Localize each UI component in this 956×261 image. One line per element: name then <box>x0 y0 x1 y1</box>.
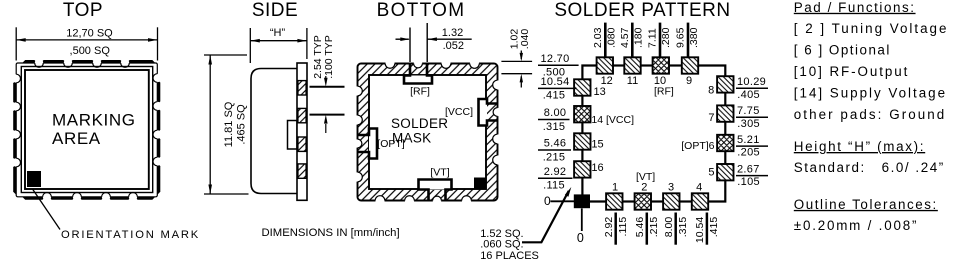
svg-text:.315: .315 <box>543 121 566 133</box>
svg-text:.100 TYP: .100 TYP <box>323 35 335 79</box>
pad 2 [VT] <box>635 193 651 209</box>
pad 4 <box>692 193 708 209</box>
svg-text:15: 15 <box>591 138 603 150</box>
dimension 5.46 leader left <box>538 149 571 151</box>
svg-text:.465 SQ: .465 SQ <box>236 104 248 145</box>
pad 12 <box>597 57 613 73</box>
svg-text:.180: .180 <box>632 27 644 48</box>
dimension 2.92 line bottom <box>614 213 617 245</box>
pad 14 [VCC] <box>574 106 590 122</box>
wire left column <box>581 96 583 106</box>
svg-text:12.70: 12.70 <box>540 53 569 65</box>
svg-text:other pads: Ground: other pads: Ground <box>794 107 946 122</box>
pad [VT] cutout <box>419 180 452 190</box>
dimension 12.70 SQ line <box>16 39 157 41</box>
svg-text:SOLDER: SOLDER <box>391 116 448 131</box>
svg-text:12,70 SQ: 12,70 SQ <box>66 27 113 39</box>
svg-text:4.57: 4.57 <box>619 27 631 48</box>
svg-text:5.46: 5.46 <box>544 138 567 150</box>
dimension 1.02 extension lines <box>501 60 532 62</box>
orientation mark <box>27 171 41 187</box>
svg-text:[VT]: [VT] <box>636 171 655 183</box>
svg-text:TOP: TOP <box>63 0 103 21</box>
dimension 4.57 line <box>631 23 634 58</box>
pad 13 <box>574 79 590 95</box>
svg-text:.115: .115 <box>543 180 565 192</box>
svg-text:[14] Supply Voltage: [14] Supply Voltage <box>794 85 947 100</box>
note leader <box>522 191 569 242</box>
pad 11 <box>624 57 640 73</box>
svg-text:3: 3 <box>668 182 674 194</box>
pad 7 <box>717 105 733 121</box>
svg-text:.380: .380 <box>688 27 700 48</box>
svg-text:.415: .415 <box>543 90 566 102</box>
svg-text:.205: .205 <box>737 147 760 159</box>
pad 1 <box>606 193 622 209</box>
dimension 10.54 leader left <box>538 87 577 89</box>
svg-text:Standard: 6.0/ .24”: Standard: 6.0/ .24” <box>794 160 945 175</box>
svg-text:5.21: 5.21 <box>737 134 760 146</box>
svg-text:0: 0 <box>544 194 551 208</box>
pad [OPT] cutout <box>369 129 377 159</box>
svg-text:[10] RF-Output: [10] RF-Output <box>794 64 909 79</box>
wire right column <box>724 151 726 164</box>
side view pad strip <box>297 63 307 200</box>
svg-text:2.03: 2.03 <box>592 27 604 48</box>
svg-text:2.67: 2.67 <box>737 163 760 175</box>
dimension 2.54 upper line <box>310 86 345 88</box>
orientation mark leader <box>33 189 61 230</box>
svg-text:[RF]: [RF] <box>654 86 674 98</box>
pad 5 <box>717 164 733 180</box>
svg-text:Pad / Functions:: Pad / Functions: <box>794 0 916 15</box>
svg-text:“H”: “H” <box>270 27 286 39</box>
svg-text:Height “H” (max):: Height “H” (max): <box>794 139 925 154</box>
svg-text:11: 11 <box>627 75 638 87</box>
bottom view orientation mark <box>474 178 487 189</box>
wire top-left corner <box>582 66 596 80</box>
svg-text:10.54: 10.54 <box>540 76 569 88</box>
dimension 9.65 line <box>687 23 690 58</box>
dimension 7.75 leader right <box>736 116 768 118</box>
svg-text:SIDE: SIDE <box>252 0 298 21</box>
dimension 2.67 leader right <box>736 175 768 177</box>
side view pads <box>298 81 306 95</box>
dimension 5.21 leader right <box>736 145 768 147</box>
svg-text:.315: .315 <box>677 217 689 238</box>
svg-text:[OPT]6: [OPT]6 <box>681 140 714 152</box>
svg-text:.405: .405 <box>737 89 760 101</box>
svg-text:AREA: AREA <box>52 129 101 148</box>
dimension 12.70 SQ extension lines <box>15 27 17 60</box>
svg-text:MASK: MASK <box>392 130 431 145</box>
svg-text:10.54: 10.54 <box>694 217 706 243</box>
pad [RF] cutout <box>404 76 432 84</box>
svg-text:1: 1 <box>612 182 618 194</box>
dimension 12.70 leader left <box>538 64 579 66</box>
svg-text:5: 5 <box>708 166 714 178</box>
svg-text:4: 4 <box>696 182 702 194</box>
side view middle protrusion <box>288 121 298 150</box>
svg-text:16: 16 <box>591 162 603 174</box>
wire top-right corner <box>698 66 725 77</box>
origin pad (black square) <box>574 194 590 208</box>
dimension 2.92 leader left <box>538 177 573 179</box>
pad 10 [RF] <box>653 57 669 73</box>
svg-text:Outline Tolerances:: Outline Tolerances: <box>794 197 938 212</box>
svg-text:.215: .215 <box>543 151 566 163</box>
svg-text:ORIENTATION MARK: ORIENTATION MARK <box>61 229 200 241</box>
svg-text:.215: .215 <box>648 217 660 238</box>
pad [VCC] cutout <box>479 99 488 126</box>
svg-text:.105: .105 <box>737 176 760 188</box>
wire origin down <box>581 208 583 231</box>
pad 9 <box>682 57 698 73</box>
svg-text:DIMENSIONS IN [mm/inch]: DIMENSIONS IN [mm/inch] <box>262 227 400 239</box>
svg-text:MARKING: MARKING <box>52 111 136 130</box>
svg-text:.080: .080 <box>605 27 617 48</box>
svg-text:,500 SQ: ,500 SQ <box>70 45 111 57</box>
svg-text:0: 0 <box>577 231 584 245</box>
svg-text:2.92: 2.92 <box>603 217 615 238</box>
svg-text:[VT]: [VT] <box>430 167 449 179</box>
pad 8 <box>717 76 733 92</box>
wire origin left <box>550 200 574 202</box>
svg-text:7: 7 <box>708 112 714 124</box>
svg-text:.115: .115 <box>617 217 629 237</box>
dimension 1.32 extension lines <box>409 28 411 63</box>
svg-text:9.65: 9.65 <box>675 27 687 48</box>
dimension 10.29 leader right <box>736 87 768 89</box>
dimension H line <box>250 40 307 42</box>
svg-text:.415: .415 <box>708 217 720 238</box>
side view body <box>251 69 297 194</box>
dimension 1.02 arrows <box>520 51 522 60</box>
svg-text:[ 2 ] Tuning Voltage: [ 2 ] Tuning Voltage <box>794 21 949 36</box>
dimension 2.03 line <box>604 23 607 58</box>
svg-text:8.00: 8.00 <box>663 217 675 238</box>
svg-text:11.81 SQ: 11.81 SQ <box>223 101 235 147</box>
svg-text:.280: .280 <box>660 27 672 48</box>
svg-text:8.00: 8.00 <box>544 107 567 119</box>
dimension 8.00 leader left <box>538 119 570 121</box>
svg-text:1.32: 1.32 <box>442 27 463 39</box>
top view body square <box>21 67 152 193</box>
bottom view inner opening <box>369 75 486 189</box>
pad 15 <box>574 133 590 149</box>
pad 6 [OPT] <box>717 135 733 151</box>
dimension 7.11 line <box>659 23 662 58</box>
pad 16 <box>574 161 590 177</box>
svg-text:13: 13 <box>594 86 606 98</box>
dimension 1.32 arrows <box>396 38 409 40</box>
svg-text:[VCC]: [VCC] <box>445 106 473 118</box>
bottom view ground castellations <box>385 59 394 68</box>
wire top row <box>669 64 682 66</box>
svg-text:SOLDER PATTERN: SOLDER PATTERN <box>554 0 730 21</box>
svg-text:.040: .040 <box>519 29 531 50</box>
dimension 8.00 line bottom <box>674 213 677 245</box>
svg-text:16 PLACES: 16 PLACES <box>480 250 539 261</box>
svg-text:8: 8 <box>708 85 714 97</box>
svg-text:2.92: 2.92 <box>544 166 567 178</box>
dimension 5.46 line bottom <box>646 213 649 245</box>
bottom view hatched ring <box>358 64 498 201</box>
wire bottom-right corner <box>708 181 725 202</box>
svg-text:[ 6 ] Optional: [ 6 ] Optional <box>794 43 891 58</box>
top view lid square <box>25 70 149 189</box>
svg-text:[RF]: [RF] <box>410 86 430 98</box>
pad 3 <box>663 193 679 209</box>
svg-text:2: 2 <box>641 182 647 194</box>
svg-text:10.29: 10.29 <box>737 76 766 88</box>
svg-text:BOTTOM: BOTTOM <box>377 0 466 21</box>
svg-text:.305: .305 <box>737 118 760 130</box>
wire bottom row <box>590 200 606 202</box>
svg-text:14 [VCC]: 14 [VCC] <box>591 114 634 126</box>
svg-text:.060 SQ.: .060 SQ. <box>480 239 523 251</box>
dimension 11.81 SQ line <box>209 55 211 194</box>
dimension H extension lines <box>249 28 251 63</box>
dimension 2.54 lower line <box>310 114 345 116</box>
dimension 11.81 SQ extension lines <box>204 54 247 56</box>
svg-text:5.46: 5.46 <box>634 217 646 238</box>
svg-text:7.11: 7.11 <box>647 28 659 48</box>
svg-text:.052: .052 <box>443 40 464 52</box>
svg-text:±0.20mm / .008”: ±0.20mm / .008” <box>794 218 918 233</box>
dimension 10.54 line bottom <box>706 213 709 245</box>
top view castellated outline <box>16 63 157 197</box>
top view castellation notches <box>35 59 43 67</box>
svg-text:7.75: 7.75 <box>737 105 760 117</box>
svg-text:9: 9 <box>686 75 692 87</box>
